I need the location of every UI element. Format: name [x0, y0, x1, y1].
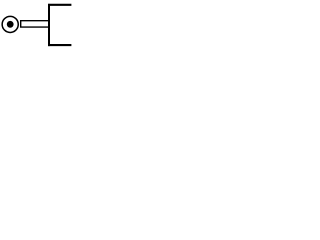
- plug outer circle: [2, 16, 18, 32]
- jack socket bottom arm: [48, 44, 71, 46]
- jack socket vertical bar: [48, 4, 50, 46]
- jack socket top arm: [48, 4, 71, 6]
- plug barrel (narrow box): [21, 21, 50, 27]
- plug center pin (filled dot): [7, 21, 14, 28]
- connector J1: plug into jack socket: [0, 0, 82, 49]
